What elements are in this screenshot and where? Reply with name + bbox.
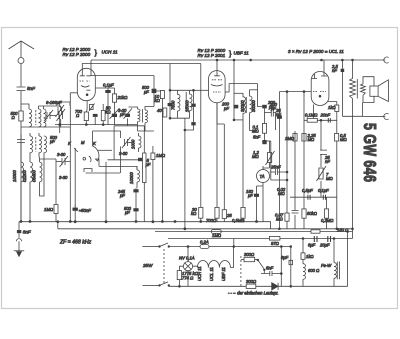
capacitor 500pF if1 bbox=[91, 76, 161, 107]
capacitor 8nF to ground bbox=[17, 222, 21, 238]
wire switch top right bbox=[93, 131, 121, 173]
coil L6 vertical with label 02200 bbox=[30, 157, 33, 222]
IF3 core bbox=[245, 97, 247, 113]
svg-text:5nF: 5nF bbox=[266, 266, 274, 271]
svg-text:600 Ω: 600 Ω bbox=[308, 268, 320, 273]
IF2 coil 15000 bbox=[190, 90, 193, 118]
wire osc link bbox=[105, 162, 107, 222]
capacitor if2 bottom bbox=[191, 122, 195, 125]
svg-text:3-30: 3-30 bbox=[59, 175, 68, 180]
svg-text:UBF 11: UBF 11 bbox=[221, 267, 226, 281]
svg-text:K: K bbox=[93, 141, 96, 146]
svg-text:Fe-W: Fe-W bbox=[321, 263, 332, 268]
electrolytic 20uF bbox=[328, 236, 331, 242]
resistor 0,1Mohm tube2 bbox=[262, 108, 266, 140]
bottom power wire bbox=[169, 284, 348, 287]
speaker cone bbox=[378, 80, 388, 102]
svg-text:0,2MΩ: 0,2MΩ bbox=[321, 218, 334, 223]
variable capacitor tuning gang 2 bbox=[56, 102, 65, 125]
resistor 300ohm upper bbox=[241, 257, 257, 261]
resistor 21kohm bbox=[108, 88, 117, 125]
capacitor 200pF tube2 on avc line bbox=[234, 105, 239, 109]
svg-text:μF: μF bbox=[145, 162, 151, 167]
svg-text:MΩ: MΩ bbox=[252, 154, 259, 159]
IF transformer 3 secondary 30000 bbox=[250, 90, 258, 131]
capacitor 25nF det bbox=[265, 109, 276, 131]
svg-text:3 × Rv 12 P 2000 = UCL 11: 3 × Rv 12 P 2000 = UCL 11 bbox=[288, 49, 344, 54]
wire avc feed bbox=[233, 60, 235, 120]
svg-text:TA: TA bbox=[260, 174, 265, 179]
svg-text:7500: 7500 bbox=[170, 100, 175, 110]
electrolytic 8uF bbox=[314, 236, 317, 242]
capacitor 25nF tone bbox=[320, 150, 327, 154]
wire column x337 bbox=[336, 141, 338, 229]
resistor 500ohm antenna bbox=[19, 111, 23, 222]
tube U3 UCL11 bbox=[311, 60, 329, 106]
capacitor if2 parallel bbox=[191, 104, 195, 107]
trimmer 3-30 right of switch bbox=[122, 137, 132, 148]
IF2 core bbox=[185, 92, 187, 112]
svg-text:nF: nF bbox=[325, 159, 330, 164]
speaker terminal top bbox=[384, 57, 389, 63]
svg-text:1MΩ: 1MΩ bbox=[156, 153, 166, 158]
svg-text:1MΩ: 1MΩ bbox=[44, 207, 54, 212]
svg-text:8μF: 8μF bbox=[281, 255, 289, 260]
capacitor 8uF right bbox=[292, 211, 299, 214]
svg-text:30000: 30000 bbox=[251, 100, 256, 112]
svg-text:μF: μF bbox=[119, 193, 125, 198]
svg-text:5 GW 646: 5 GW 646 bbox=[359, 123, 378, 182]
svg-text:06400: 06400 bbox=[32, 170, 37, 182]
svg-text:kΩ: kΩ bbox=[155, 98, 161, 103]
resistor 0,1Mohm grid leak horizontal bbox=[304, 118, 337, 122]
capacitor 5nF antenna bbox=[17, 87, 26, 111]
wire screen feed tube2 bbox=[200, 64, 202, 208]
resistor 1Mohm right bbox=[293, 134, 297, 142]
svg-text:1kΩ: 1kΩ bbox=[306, 254, 314, 259]
dial lamp NV 0,1A bbox=[183, 247, 192, 287]
choke column bbox=[301, 239, 306, 287]
capacitor 5nF option bbox=[261, 270, 281, 276]
wire voice coil return bbox=[342, 103, 385, 117]
svg-text:300Ω: 300Ω bbox=[244, 252, 255, 257]
electrolytic 8uF option bbox=[289, 247, 293, 287]
resistor 10kohm if1 bbox=[160, 90, 164, 221]
wire tube3 cathode down bbox=[313, 105, 315, 121]
capacitor 5nF det bbox=[262, 140, 271, 144]
wire column x321 tone bbox=[320, 120, 322, 197]
svg-text:μF: μF bbox=[49, 139, 55, 144]
top rail B bbox=[82, 63, 201, 65]
svg-text:21kΩ: 21kΩ bbox=[117, 95, 129, 100]
shunt resistor 1775ohm bbox=[177, 266, 183, 286]
right vertical power bbox=[347, 232, 349, 287]
wire IF1 top link bbox=[170, 89, 194, 91]
svg-text:0,1μF: 0,1μF bbox=[318, 188, 329, 193]
svg-text:μF: μF bbox=[247, 193, 253, 198]
capacitor series row2 bbox=[17, 134, 25, 148]
svg-text:pF: pF bbox=[270, 106, 276, 111]
wire TA links bbox=[257, 166, 270, 222]
trimmer small right of 3-20 bbox=[124, 108, 133, 119]
svg-text:20μF: 20μF bbox=[319, 243, 330, 248]
resistor 0,5Mohm row bbox=[241, 120, 245, 222]
svg-text:700Ω: 700Ω bbox=[206, 218, 217, 223]
svg-text:3-30: 3-30 bbox=[57, 152, 66, 157]
potentiometer 1,2Mohm bbox=[266, 141, 275, 168]
svg-text:UCH 11: UCH 11 bbox=[197, 266, 202, 281]
wire row1 top link bbox=[39, 105, 61, 107]
rectifier diode bbox=[272, 283, 278, 290]
svg-text:nF: nF bbox=[332, 68, 337, 73]
svg-text:Rv 12 P 2000: Rv 12 P 2000 bbox=[63, 52, 91, 57]
resistor 700ohm bbox=[84, 110, 88, 125]
wire mixer out down bbox=[60, 93, 71, 222]
node dots bottom row bbox=[161, 221, 163, 223]
coil L2 pair bbox=[39, 106, 47, 127]
capacitor under tube1 bbox=[93, 114, 98, 117]
svg-text:kΩ: kΩ bbox=[191, 211, 197, 216]
fuse resistor on lineA bbox=[211, 230, 221, 234]
coil L8 with label 10000 bbox=[139, 133, 142, 152]
node dots row bbox=[59, 124, 61, 126]
wire row3 top bbox=[40, 159, 57, 204]
trimmer box small bbox=[89, 104, 95, 112]
svg-text:1MΩ: 1MΩ bbox=[212, 233, 222, 238]
wire antenna branch row1 bbox=[21, 104, 29, 109]
capacitor 0,5uF series bbox=[308, 195, 310, 200]
svg-text:≈50nF: ≈50nF bbox=[79, 208, 91, 213]
switch bottom blade bbox=[159, 282, 170, 286]
wire column x304 bbox=[303, 92, 305, 209]
output transformer secondary (voice coil) bbox=[361, 77, 375, 103]
svg-text:8μF: 8μF bbox=[308, 243, 316, 248]
trimmer 3-20 bbox=[110, 108, 120, 119]
switch option blade bbox=[257, 259, 265, 270]
wire IF1 bottom bbox=[170, 117, 190, 119]
svg-text:μF: μF bbox=[143, 90, 149, 95]
capacitor 500pF osc bbox=[133, 206, 138, 222]
wire vol top bbox=[108, 159, 139, 161]
svg-text:0,1MΩ: 0,1MΩ bbox=[305, 113, 318, 118]
svg-text:30000: 30000 bbox=[240, 100, 245, 112]
svg-text:M: M bbox=[81, 140, 85, 145]
svg-text:300Ω: 300Ω bbox=[246, 279, 257, 284]
svg-text:02200: 02200 bbox=[22, 170, 27, 182]
svg-text:- - -· der einfachen Lautspr.: - - -· der einfachen Lautspr. bbox=[228, 291, 279, 296]
wire tube1 cathode row bbox=[55, 124, 137, 126]
svg-text:15000: 15000 bbox=[185, 100, 190, 112]
resistor small on lineA right bbox=[311, 230, 320, 233]
svg-text:μF: μF bbox=[119, 112, 125, 117]
capacitor 180pF bbox=[254, 186, 259, 222]
svg-text:UCH 11: UCH 11 bbox=[102, 50, 118, 55]
capacitor 20nF series bbox=[328, 118, 330, 123]
svg-text:20nF: 20nF bbox=[320, 113, 331, 118]
resistor 0,2Mohm right bbox=[324, 197, 328, 229]
resistor 1kohm tube3 bbox=[335, 105, 339, 134]
field winding Fe-W bbox=[334, 239, 339, 287]
svg-text:Rv 12 P 2001: Rv 12 P 2001 bbox=[198, 53, 226, 58]
IF transformer 3 primary 30000 bbox=[234, 93, 246, 120]
svg-text:50kΩ: 50kΩ bbox=[307, 211, 318, 216]
resistor 700ohm-2 bbox=[215, 207, 219, 221]
svg-text:MΩ: MΩ bbox=[308, 137, 315, 142]
band switch rotary bbox=[74, 146, 137, 173]
wire IF2 secondary column bbox=[185, 90, 194, 130]
switch link dashed bbox=[163, 249, 165, 283]
resistor 50kohm right bbox=[302, 209, 306, 229]
wire rail B drop to IF1 bbox=[169, 64, 171, 119]
resistor 40kohm bbox=[163, 108, 167, 117]
wire switch left down bbox=[74, 148, 76, 222]
mains wire top bbox=[143, 246, 159, 248]
trimmer 3-30 left bbox=[56, 156, 70, 167]
potentiometer 7Mohm tone bbox=[317, 166, 327, 181]
wire af grid line bbox=[279, 91, 311, 93]
resistor 0,07Mohm bbox=[285, 92, 289, 229]
svg-text:10000: 10000 bbox=[129, 172, 134, 184]
coil osc A bbox=[129, 107, 141, 131]
svg-text:97Ω: 97Ω bbox=[271, 241, 280, 246]
capacitor 0,1uF series bbox=[323, 195, 325, 200]
wire cathode to 1k bbox=[328, 102, 337, 106]
coil L1 antenna bbox=[29, 109, 32, 127]
speaker terminal bottom bbox=[384, 114, 389, 120]
antenna bbox=[9, 41, 35, 87]
resistor 1Mohm vol bbox=[151, 146, 155, 222]
svg-text:3-30: 3-30 bbox=[119, 151, 128, 156]
coil L5 vertical with label 10000 bbox=[21, 157, 24, 222]
potentiometer volume 1Mohm tall bbox=[143, 126, 146, 222]
wire tube2 cathode down bbox=[217, 103, 224, 210]
wire gang2 top bbox=[60, 102, 70, 106]
dashed option line bbox=[240, 256, 242, 287]
svg-text:0,1μF: 0,1μF bbox=[103, 83, 114, 88]
tube U2 UBF11 bbox=[194, 60, 226, 124]
pickup TA bbox=[257, 170, 270, 183]
capacitor 200pF tube3 bbox=[277, 115, 282, 118]
svg-text:1MΩ: 1MΩ bbox=[285, 136, 295, 141]
wire down from grid line bbox=[278, 92, 280, 229]
capacitor IF1 parallel bbox=[168, 103, 172, 106]
switch top blade bbox=[159, 243, 200, 247]
svg-text:8nF: 8nF bbox=[23, 229, 32, 234]
resistor 97ohm on lineA bbox=[269, 237, 280, 241]
mains wire bottom bbox=[143, 284, 159, 286]
core antenna transformer row1 bbox=[35, 110, 37, 125]
core transformer row2 bbox=[35, 137, 37, 152]
capacitor 0,1uF anode tube1 bbox=[95, 88, 111, 125]
coil osc B bbox=[143, 107, 154, 132]
coil L9 with label 10000b bbox=[137, 166, 140, 188]
resistor 25uF cathode bbox=[222, 210, 226, 222]
variable capacitor tuning gang 1 bbox=[57, 106, 66, 127]
wire row2 bbox=[21, 133, 44, 157]
wire af coupling row y197 bbox=[290, 196, 337, 198]
resistor 0,5Mohm col bbox=[335, 134, 339, 142]
svg-text:UCL 11: UCL 11 bbox=[209, 267, 214, 281]
fuse 0,2A bbox=[200, 245, 291, 249]
wire IF3 bottom links bbox=[250, 130, 258, 132]
resistor 300ohm lower bbox=[246, 284, 256, 288]
output transformer primary bbox=[350, 59, 356, 238]
resistor 50kohm osc bbox=[101, 104, 105, 125]
svg-text:MΩ: MΩ bbox=[326, 176, 333, 181]
node dots power bbox=[302, 238, 304, 240]
chassis bus 2 bbox=[58, 228, 353, 230]
capacitor 245pF bbox=[133, 188, 138, 206]
svg-text:774 Ω: 774 Ω bbox=[182, 276, 194, 281]
capacitor 5pF vol bbox=[138, 158, 142, 161]
node dots bus bbox=[20, 221, 22, 223]
resistor 1Mohm agc bbox=[54, 205, 58, 222]
svg-text:5nF: 5nF bbox=[253, 135, 261, 140]
wire long drop to bus2 bbox=[184, 118, 186, 229]
svg-text:MΩ: MΩ bbox=[340, 137, 347, 142]
resistor 30kohm bbox=[199, 207, 203, 221]
svg-text:μF: μF bbox=[124, 210, 130, 215]
wire column x295 bbox=[294, 131, 296, 229]
svg-text:pF: pF bbox=[223, 106, 229, 111]
wire IF3 bottom bbox=[234, 119, 243, 121]
resistor 2,25Mohm bbox=[302, 134, 306, 142]
svg-text:5nF: 5nF bbox=[27, 86, 36, 91]
svg-text:0,2A: 0,2A bbox=[200, 240, 209, 245]
svg-text:40: 40 bbox=[157, 108, 162, 113]
wire osc bottoms bbox=[138, 130, 154, 132]
coil L3 row2 bbox=[30, 136, 33, 153]
wire line B bbox=[168, 238, 353, 240]
wire line A bbox=[155, 231, 353, 233]
svg-text:25W: 25W bbox=[142, 263, 153, 268]
wire left col row3 junction bbox=[40, 157, 45, 196]
trimmer cap row1 bbox=[44, 110, 56, 121]
coil L4 row2 bbox=[39, 136, 47, 153]
wire det out bbox=[271, 141, 287, 180]
svg-text:NV 0,1A: NV 0,1A bbox=[179, 256, 195, 261]
ground bbox=[14, 239, 24, 257]
svg-text:1kΩ: 1kΩ bbox=[328, 105, 336, 110]
svg-text:0,5MΩ: 0,5MΩ bbox=[232, 218, 245, 223]
capacitor 200pF det on drop bbox=[258, 84, 267, 109]
svg-text:10000: 10000 bbox=[12, 170, 17, 182]
main chassis bus bbox=[19, 222, 271, 229]
svg-text:ZF = 468 kHz: ZF = 468 kHz bbox=[59, 240, 92, 246]
coil L7 vertical with label 06400 bbox=[40, 157, 43, 193]
capacitor 50nF left bbox=[73, 205, 78, 211]
wire IF3 feed bbox=[225, 84, 257, 93]
capacitor 25nF af bbox=[270, 169, 288, 175]
tube U1 UCH11 bbox=[70, 60, 95, 110]
capacitor 2.5nF bbox=[341, 60, 345, 116]
heater chain humps bbox=[193, 247, 234, 268]
output transformer core bbox=[356, 79, 358, 99]
svg-text:0,5μF: 0,5μF bbox=[302, 188, 313, 193]
svg-text:1000: 1000 bbox=[131, 139, 136, 149]
IF1 coil 7500 bbox=[178, 90, 181, 118]
top rail A bbox=[91, 59, 385, 61]
speaker driver bbox=[370, 86, 378, 96]
wire row1 bottom bbox=[21, 126, 70, 128]
svg-text:UBF 11: UBF 11 bbox=[234, 51, 250, 56]
